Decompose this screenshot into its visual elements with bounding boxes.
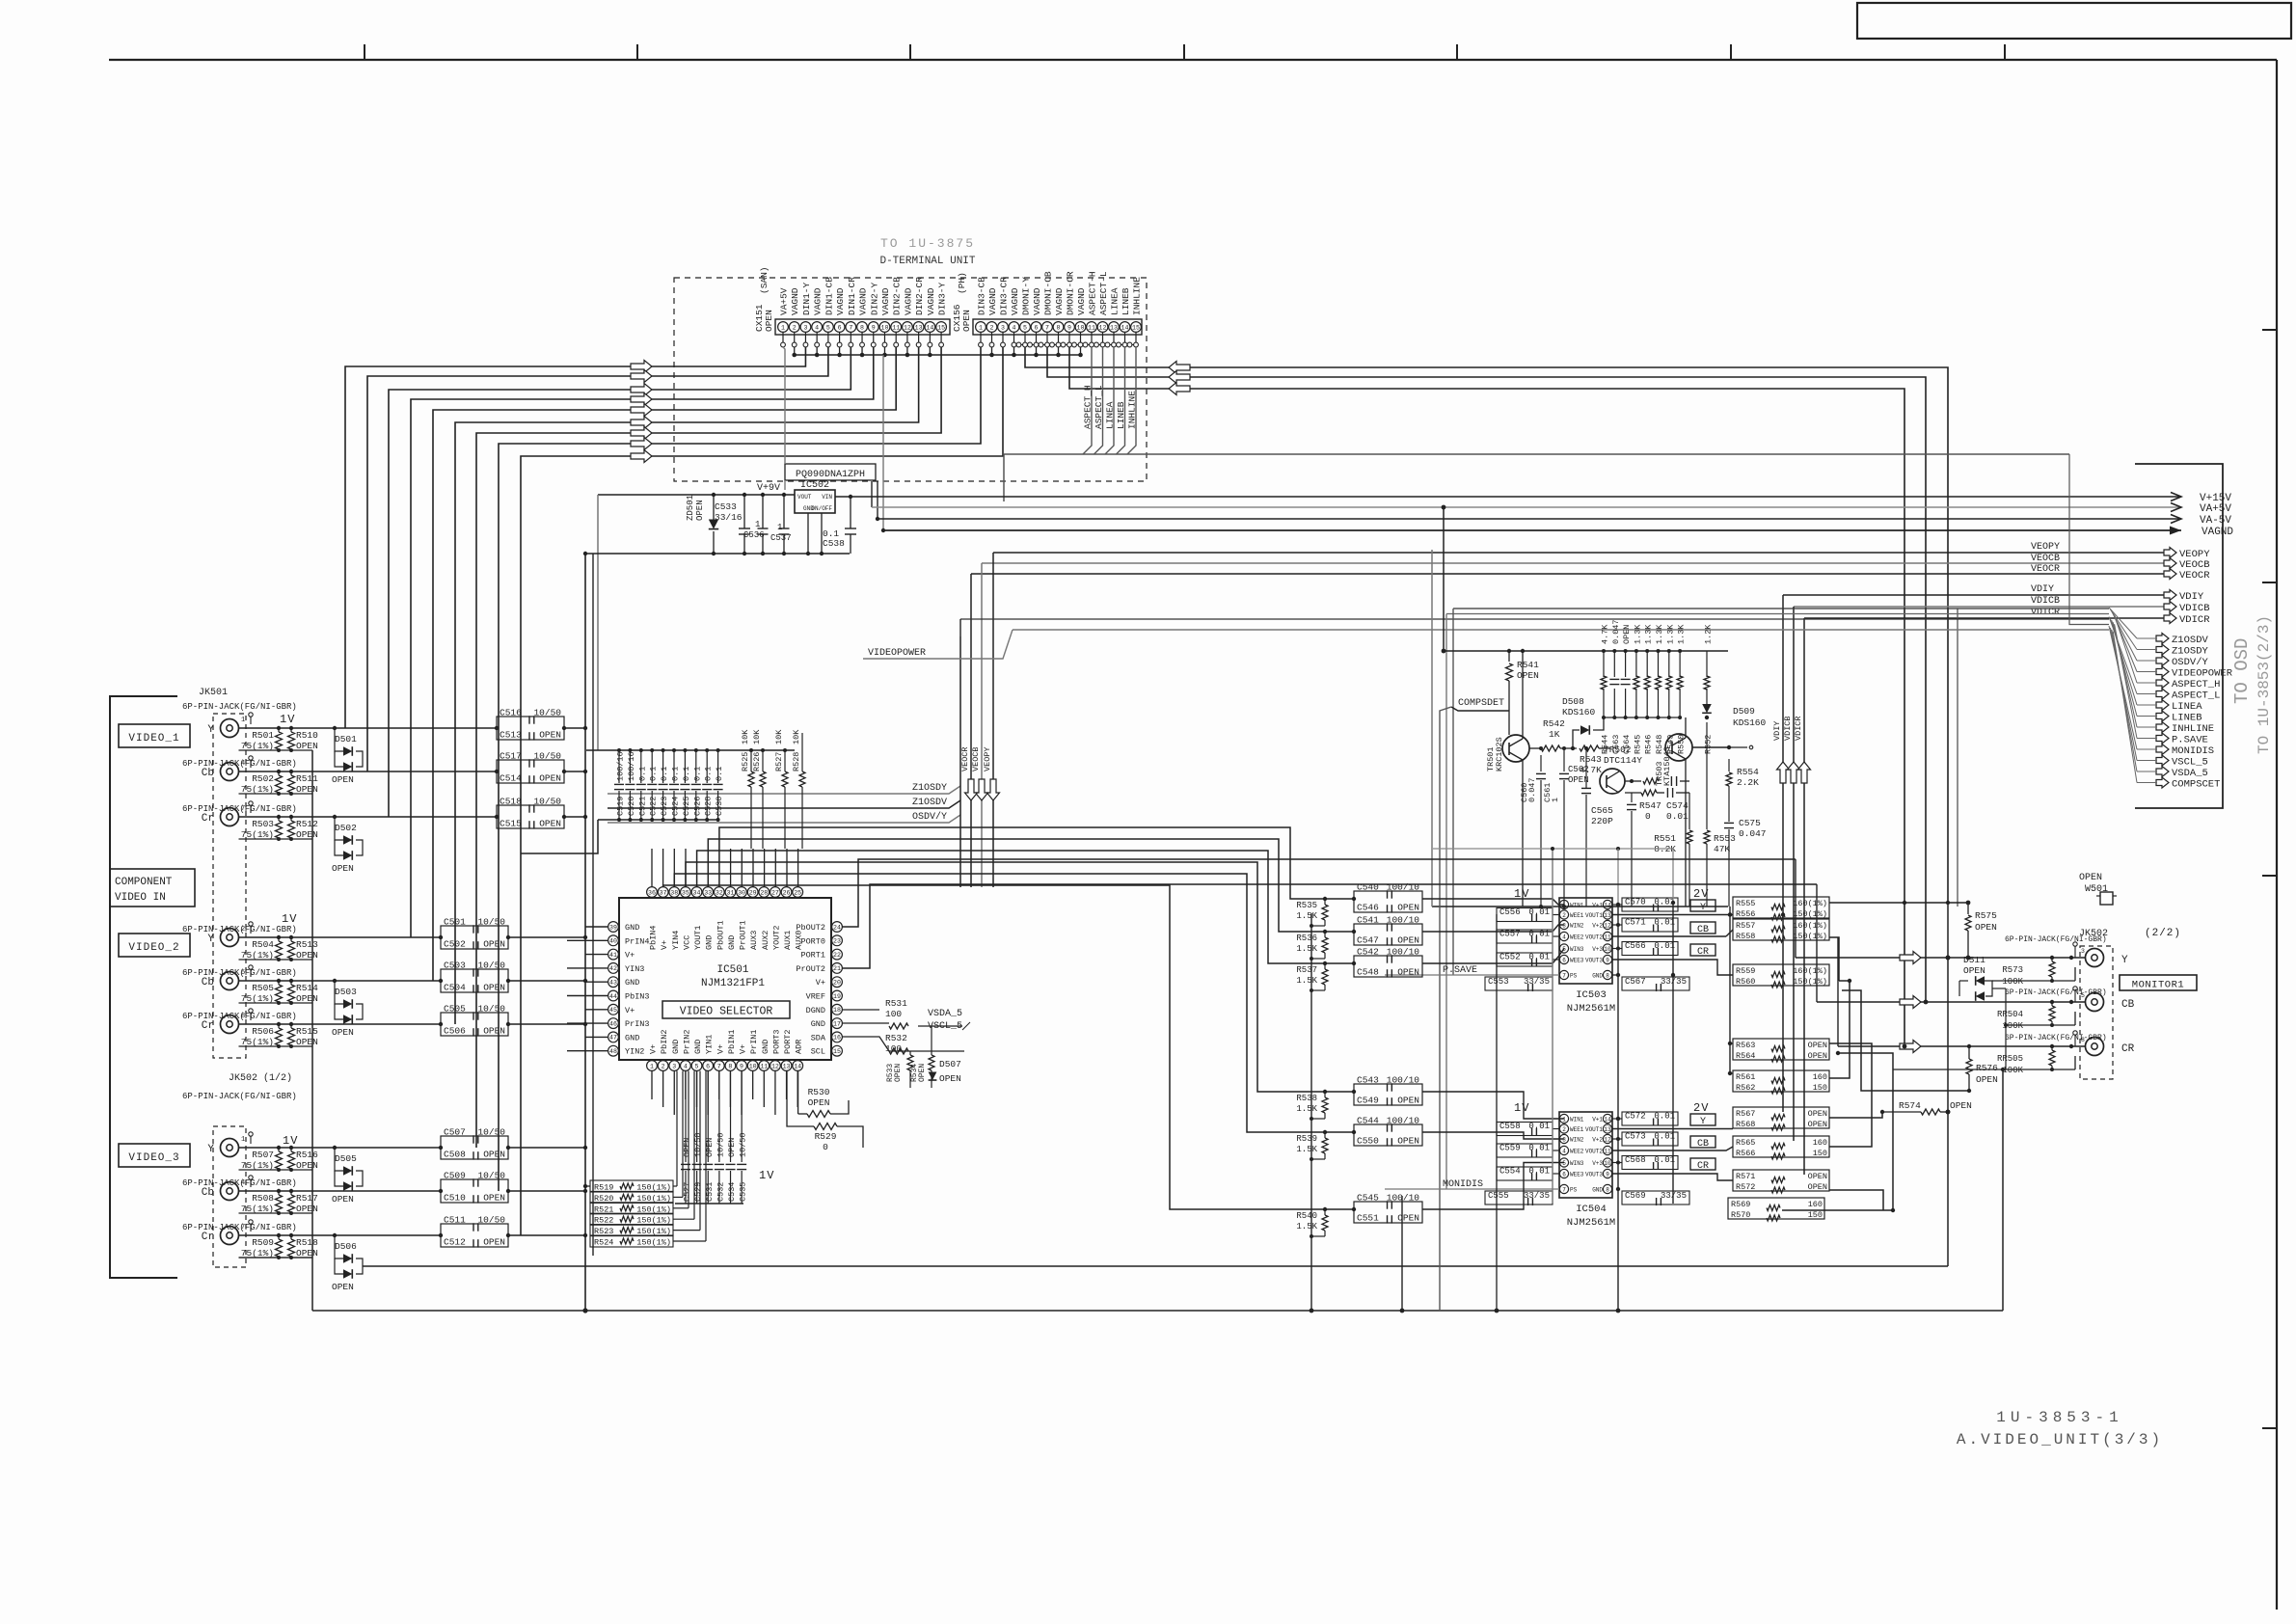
svg-text:C502: C502 <box>444 939 466 950</box>
IC504 pin 13 VOUT1 <box>1603 1124 1611 1133</box>
svg-text:NJM2561M: NJM2561M <box>1567 1003 1615 1015</box>
CX156 pin 11 stub <box>1091 333 1093 343</box>
wire DMONI left arrows <box>1169 362 1190 374</box>
wire DIN signal 2 <box>367 347 828 771</box>
svg-text:11: 11 <box>1604 1148 1611 1154</box>
svg-text:1.5K: 1.5K <box>1296 944 1317 954</box>
svg-text:3: 3 <box>1562 1136 1566 1143</box>
svg-text:R526: R526 <box>752 752 762 771</box>
svg-text:VEOCB: VEOCB <box>2031 554 2060 564</box>
svg-text:13: 13 <box>1110 324 1118 331</box>
svg-text:R545: R545 <box>1633 735 1642 754</box>
IC501 pin 46 <box>608 1018 619 1029</box>
CX151 pin 2 stub <box>794 333 796 343</box>
wire jack row 3 <box>239 936 442 938</box>
svg-text:150(1%): 150(1%) <box>1793 909 1827 919</box>
svg-text:10: 10 <box>1604 1160 1611 1167</box>
CX151 pin 3 <box>800 322 811 333</box>
svg-text:C510: C510 <box>444 1193 466 1204</box>
svg-text:100/16: 100/16 <box>627 751 636 781</box>
svg-text:OPEN: OPEN <box>1808 1182 1827 1192</box>
svg-text:KDS160: KDS160 <box>1562 707 1596 717</box>
capacitor C522 0.1 <box>651 750 653 783</box>
IC504 pin 14 V+1 <box>1603 1114 1611 1123</box>
svg-text:R518: R518 <box>296 1237 318 1248</box>
svg-text:4: 4 <box>1562 934 1566 940</box>
resistor R554 2.2K <box>1728 759 1730 771</box>
capacitor C525 0.1 <box>684 750 686 783</box>
wire CR riser <box>1837 937 1839 1046</box>
svg-text:150(1%): 150(1%) <box>1793 977 1827 987</box>
svg-text:(2/2): (2/2) <box>2145 928 2181 939</box>
svg-text:OPEN: OPEN <box>1517 670 1539 681</box>
svg-text:VAGND: VAGND <box>835 287 846 315</box>
svg-text:1.5K: 1.5K <box>1296 911 1317 921</box>
CX156 pin 8 <box>1053 322 1064 333</box>
svg-text:VAGND: VAGND <box>1076 287 1087 315</box>
wire output ASPECT_H <box>2156 678 2169 689</box>
svg-text:VDICR: VDICR <box>1794 716 1803 741</box>
IC501 pin 10 <box>747 1061 758 1071</box>
svg-text:23: 23 <box>833 938 841 945</box>
svg-text:C543: C543 <box>1357 1075 1379 1086</box>
resistor R514 OPEN <box>288 985 295 1002</box>
svg-text:VAGND: VAGND <box>1010 287 1020 315</box>
IC504 pin 11 VOUT2 <box>1603 1146 1611 1154</box>
CX156 pin 1 stub <box>980 333 982 343</box>
IC504 pin 1 WIN1 <box>1559 1114 1568 1123</box>
CX156 pin 7 stub <box>1046 333 1048 343</box>
wire riser x2030 <box>1957 609 1958 907</box>
svg-text:R561: R561 <box>1736 1072 1755 1082</box>
capacitor C529 10/50 <box>696 1071 698 1163</box>
svg-text:V+: V+ <box>816 978 825 988</box>
svg-text:D508: D508 <box>1562 696 1584 707</box>
wire VAGND feed from bus <box>882 355 884 530</box>
svg-text:0.1: 0.1 <box>660 767 669 781</box>
video input bracket <box>110 696 177 1278</box>
IC501 pin 27 <box>770 887 781 898</box>
svg-text:C516: C516 <box>500 708 522 718</box>
wire VOUT1 to R555 <box>1612 914 1733 916</box>
svg-text:VA+5V: VA+5V <box>2200 503 2231 515</box>
svg-text:100: 100 <box>885 1009 902 1019</box>
svg-text:38: 38 <box>670 889 678 896</box>
CX156 pin 10 <box>1075 322 1086 333</box>
wire VOUT2 to R557 <box>1612 935 1726 937</box>
svg-text:WEE2: WEE2 <box>1570 934 1584 941</box>
svg-text:10/50: 10/50 <box>477 1004 505 1015</box>
svg-text:Y: Y <box>1700 903 1706 913</box>
IC503 pin 4 WEE2 <box>1559 932 1568 940</box>
wire jack row 6 <box>239 1147 442 1149</box>
svg-text:C518: C518 <box>500 797 522 807</box>
svg-text:4: 4 <box>241 1179 245 1187</box>
IC501 pin 14 <box>793 1061 803 1071</box>
svg-text:10/50: 10/50 <box>477 1127 505 1138</box>
resistor R517 OPEN <box>288 1195 295 1212</box>
svg-text:LINEA: LINEA <box>1110 287 1121 315</box>
svg-text:30: 30 <box>738 889 745 896</box>
wire OSDV/Y <box>608 815 960 823</box>
wire VA-5V drop <box>871 481 873 507</box>
wire IC504 VOUT1 to R567 <box>1612 1128 1733 1130</box>
wire caps bottom rail <box>675 1203 743 1204</box>
svg-text:KRC102S: KRC102S <box>1495 737 1504 771</box>
IC501 pin 35 <box>680 887 690 898</box>
svg-text:10: 10 <box>749 1063 757 1069</box>
svg-text:8: 8 <box>1606 1186 1609 1193</box>
svg-text:C553: C553 <box>1488 977 1509 987</box>
CX156 pin 3 <box>998 322 1009 333</box>
wire LINEA <box>1105 347 1114 454</box>
svg-text:2: 2 <box>1562 912 1566 919</box>
svg-text:ZD501: ZD501 <box>686 495 695 521</box>
svg-text:OPEN: OPEN <box>332 1282 354 1292</box>
svg-text:VDICR: VDICR <box>2179 614 2210 626</box>
svg-text:OPEN: OPEN <box>483 1150 505 1160</box>
wire output ASPECT_L <box>2156 689 2169 699</box>
svg-text:IC501: IC501 <box>716 964 748 976</box>
svg-text:OPEN: OPEN <box>1975 922 1997 933</box>
CX151 pin 15 stub <box>940 333 942 343</box>
svg-text:R503: R503 <box>252 819 274 829</box>
svg-text:MONITOR1: MONITOR1 <box>2132 980 2184 991</box>
wire CB riser <box>1816 884 1818 1002</box>
svg-text:1V: 1V <box>759 1169 774 1182</box>
wire V+9V rail <box>598 494 795 496</box>
svg-text:R570: R570 <box>1731 1210 1750 1220</box>
jack Cb input 4 <box>221 972 239 990</box>
svg-text:OPEN: OPEN <box>1622 625 1632 644</box>
svg-text:OPEN: OPEN <box>483 1026 505 1037</box>
capacitor pair C511/C512 <box>441 1224 508 1247</box>
CX151 pin 1 stub <box>782 333 784 343</box>
svg-text:DGND: DGND <box>806 1006 825 1015</box>
border tick <box>2262 1427 2277 1429</box>
wire bus1 IC501 to amp input <box>719 827 1354 899</box>
svg-text:C542: C542 <box>1357 947 1379 958</box>
wire IC501 top stub <box>673 849 675 887</box>
wire mid horizontal PrOUT2 <box>842 884 1817 968</box>
border right rule <box>2276 60 2278 1610</box>
svg-text:R524: R524 <box>594 1238 613 1248</box>
svg-text:1K: 1K <box>1549 729 1560 740</box>
capacitor C553 33/35 <box>1485 977 1553 990</box>
svg-text:CR: CR <box>1697 947 1709 958</box>
svg-text:VSCL_5: VSCL_5 <box>2172 757 2208 769</box>
wire VEOCB <box>982 562 2164 564</box>
svg-text:C573: C573 <box>1625 1132 1646 1142</box>
svg-text:VAGND: VAGND <box>813 287 824 315</box>
svg-text:C521: C521 <box>637 797 647 816</box>
svg-text:33/16: 33/16 <box>715 512 743 523</box>
svg-text:VREF: VREF <box>806 992 825 1002</box>
capacitor C570 0.01 <box>1622 898 1678 911</box>
svg-text:VIDEO_2: VIDEO_2 <box>128 942 179 954</box>
resistor R515 OPEN <box>288 1028 295 1045</box>
svg-text:5: 5 <box>2081 992 2085 999</box>
svg-text:41: 41 <box>609 952 617 959</box>
svg-text:31: 31 <box>726 889 734 896</box>
capacitor C568 0.01 <box>1622 1156 1678 1170</box>
svg-text:160: 160 <box>1813 1072 1827 1082</box>
wire bus4 IC501 to amp input <box>686 862 1354 1092</box>
svg-text:2: 2 <box>241 926 245 934</box>
svg-text:Cr: Cr <box>202 1232 214 1243</box>
connector JK502(2/2) dashed box <box>2080 946 2113 1079</box>
svg-text:9: 9 <box>740 1063 743 1069</box>
CX156 pin 6 <box>1031 322 1041 333</box>
CX151 pin 6 stub <box>839 333 841 343</box>
wire VEOCR vertical <box>970 574 972 887</box>
bracket TO OSD <box>2135 464 2223 808</box>
svg-text:PrOUT1: PrOUT1 <box>739 920 748 950</box>
svg-text:COMPONENT: COMPONENT <box>115 877 173 888</box>
jack MONITOR1 Y <box>2086 949 2104 967</box>
resistor R503 75(1%) <box>276 821 283 838</box>
wire fan diagonal cone <box>2109 608 2137 638</box>
wire fan feed bundle horizontals <box>1453 608 2109 609</box>
svg-text:2.2K: 2.2K <box>1737 777 1759 788</box>
svg-text:C549: C549 <box>1357 1096 1379 1106</box>
svg-text:R571: R571 <box>1736 1172 1755 1181</box>
svg-text:6P-PIN-JACK(FG/NI-GBR): 6P-PIN-JACK(FG/NI-GBR) <box>2005 935 2107 944</box>
svg-text:R543: R543 <box>1580 754 1602 765</box>
svg-text:JK502 (1/2): JK502 (1/2) <box>229 1072 292 1084</box>
resistor R527 10K <box>784 750 786 771</box>
capacitor C552 0.01 <box>1497 953 1553 966</box>
svg-text:DMONI-CB: DMONI-CB <box>1043 271 1054 315</box>
svg-text:OPEN: OPEN <box>1950 1100 1972 1111</box>
svg-text:150: 150 <box>1813 1149 1827 1158</box>
svg-text:WIN2: WIN2 <box>1570 923 1584 930</box>
svg-text:R560: R560 <box>1736 977 1755 987</box>
capacitor C559 0.01 <box>1497 1144 1553 1157</box>
wire row to column <box>508 936 585 938</box>
svg-text:6: 6 <box>1562 1171 1566 1177</box>
svg-text:OPEN: OPEN <box>1397 1213 1419 1224</box>
svg-text:6P-PIN-JACK(FG/NI-GBR): 6P-PIN-JACK(FG/NI-GBR) <box>182 759 297 769</box>
IC503 pin 11 VOUT2 <box>1603 932 1611 940</box>
svg-text:V+2: V+2 <box>1592 1137 1603 1144</box>
svg-text:0.047: 0.047 <box>1611 619 1621 644</box>
resistor R511 OPEN <box>288 775 295 793</box>
svg-text:19: 19 <box>833 993 841 1000</box>
svg-text:C508: C508 <box>444 1150 466 1160</box>
svg-text:OSDV/Y: OSDV/Y <box>2172 657 2209 668</box>
wire rail 1678 <box>1617 905 1619 1311</box>
svg-text:1: 1 <box>777 523 782 532</box>
wire VAGND rail <box>883 529 2181 531</box>
svg-text:14: 14 <box>1121 324 1129 331</box>
IC501 pin 33 <box>703 887 714 898</box>
capacitor C531 OPEN <box>707 1071 709 1163</box>
svg-text:14: 14 <box>1604 1116 1611 1123</box>
svg-text:6P-PIN-JACK(FG/NI-GBR): 6P-PIN-JACK(FG/NI-GBR) <box>182 968 297 978</box>
wire GND row IC503 <box>1612 974 1618 976</box>
capacitor C524 0.1 <box>673 750 675 783</box>
resistor R505 75(1%) <box>276 985 283 1002</box>
jack MONITOR1 CR <box>2086 1038 2104 1056</box>
svg-text:8: 8 <box>241 1013 245 1020</box>
wire Y jack line <box>1796 957 2085 959</box>
svg-text:ASPECT_L: ASPECT_L <box>2172 690 2220 702</box>
svg-text:OPEN: OPEN <box>483 983 505 993</box>
svg-text:Cb: Cb <box>202 977 214 988</box>
svg-text:PrIN4: PrIN4 <box>625 936 650 946</box>
svg-text:21: 21 <box>833 965 841 972</box>
svg-text:YIN3: YIN3 <box>625 964 644 974</box>
IC503 pin 3 WIN2 <box>1559 920 1568 929</box>
IC501 pin 39 <box>608 922 619 933</box>
svg-text:6P-PIN-JACK(FG/NI-GBR): 6P-PIN-JACK(FG/NI-GBR) <box>182 1178 297 1188</box>
svg-text:D501: D501 <box>335 734 357 744</box>
CX156 pin 14 <box>1120 322 1130 333</box>
svg-text:PrIN2: PrIN2 <box>682 1029 691 1054</box>
svg-text:14: 14 <box>926 324 933 331</box>
svg-text:C505: C505 <box>444 1004 466 1015</box>
svg-text:R542: R542 <box>1543 718 1565 729</box>
svg-text:0.01: 0.01 <box>1654 1112 1675 1122</box>
resistor pair R571/R572 <box>1733 1170 1829 1191</box>
resistor pair R565/R566 <box>1733 1136 1829 1157</box>
wire IC501 top stub <box>662 849 664 887</box>
svg-text:R569: R569 <box>1731 1200 1750 1209</box>
svg-text:PrIN3: PrIN3 <box>625 1019 650 1029</box>
svg-text:R537: R537 <box>1296 965 1317 975</box>
capacitor C519 100/16 <box>618 750 620 783</box>
IC503 pin 6 WEE3 <box>1559 955 1568 963</box>
svg-text:5: 5 <box>1023 324 1027 331</box>
svg-text:YIN1: YIN1 <box>705 1035 715 1054</box>
svg-text:Cb: Cb <box>202 1187 214 1199</box>
svg-text:PbOUT2: PbOUT2 <box>796 923 825 933</box>
svg-text:R505: R505 <box>252 983 274 993</box>
wire node D <box>1829 1043 1872 1147</box>
svg-text:9: 9 <box>1606 1171 1609 1177</box>
svg-text:VIDEOPOWER: VIDEOPOWER <box>868 648 926 659</box>
wire DIN signal 8 <box>499 347 981 1191</box>
svg-text:WIN3: WIN3 <box>1570 1160 1584 1167</box>
svg-text:R506: R506 <box>252 1026 274 1037</box>
svg-text:C545: C545 <box>1357 1193 1379 1204</box>
IC504 pin 8 GND <box>1603 1184 1611 1193</box>
wire IC501 top stub <box>797 849 799 887</box>
IC501 pin 5 <box>691 1061 702 1071</box>
svg-text:Cb: Cb <box>202 768 214 779</box>
CX156 pin 11 <box>1087 322 1097 333</box>
CX151 pin 14 <box>925 322 935 333</box>
svg-text:R517: R517 <box>296 1193 318 1204</box>
svg-text:R564: R564 <box>1736 1051 1755 1061</box>
IC503 pin 14 V+1 <box>1603 900 1611 908</box>
svg-text:10K: 10K <box>774 729 784 744</box>
svg-text:R529: R529 <box>815 1131 837 1142</box>
capacitor C528 0.1 <box>706 750 708 783</box>
svg-text:R546: R546 <box>1644 735 1654 754</box>
IC503 pin 5 WIN3 <box>1559 944 1568 953</box>
svg-text:C567: C567 <box>1625 977 1646 987</box>
svg-text:R557: R557 <box>1736 921 1755 931</box>
IC501 pin 29 <box>747 887 758 898</box>
jack return wire <box>239 959 313 961</box>
capacitor C527 OPEN <box>685 1071 687 1163</box>
svg-text:OPEN: OPEN <box>918 1064 927 1082</box>
svg-text:CB: CB <box>1697 1139 1709 1150</box>
connector CX156 <box>973 319 1142 335</box>
label CB box IC503 <box>1690 922 1715 934</box>
IC504 pin 9 VOUT3 <box>1603 1169 1611 1177</box>
wire D509 to rail <box>1706 716 1708 717</box>
svg-text:JK501: JK501 <box>199 688 228 698</box>
svg-text:GND: GND <box>625 923 639 933</box>
svg-text:VAGND: VAGND <box>1032 287 1042 315</box>
svg-text:VEOCB: VEOCB <box>971 746 981 771</box>
wire row to column <box>508 1190 585 1192</box>
svg-text:C514: C514 <box>500 773 522 784</box>
wire TR502 links <box>1625 780 1632 782</box>
wire node C <box>1842 990 1969 1091</box>
svg-text:IC504: IC504 <box>1576 1204 1607 1215</box>
CX151 pin 11 stub <box>895 333 897 343</box>
jack return wire <box>239 1002 313 1004</box>
svg-text:YIN2: YIN2 <box>625 1047 644 1057</box>
wire Y riser <box>1795 859 1796 958</box>
svg-text:R559: R559 <box>1736 966 1755 976</box>
CX151 pin 13 stub <box>918 333 920 343</box>
svg-text:5: 5 <box>695 1063 699 1069</box>
CX151 pin 11 <box>891 322 902 333</box>
svg-text:7: 7 <box>1045 324 1049 331</box>
resistor R516 OPEN <box>288 1151 295 1169</box>
IC501 pin 15 <box>832 1045 843 1056</box>
svg-text:OPEN: OPEN <box>483 1193 505 1204</box>
svg-text:GND: GND <box>705 935 715 950</box>
svg-text:5: 5 <box>1562 1160 1566 1167</box>
svg-text:8: 8 <box>2081 1037 2085 1043</box>
svg-text:OPEN: OPEN <box>332 1194 354 1204</box>
resistor R526 10K <box>762 750 764 771</box>
IC501 pin 12 <box>770 1061 781 1071</box>
jumper W501 <box>2100 892 2113 905</box>
svg-text:6: 6 <box>838 324 842 331</box>
svg-text:42: 42 <box>609 965 617 972</box>
svg-text:COMPSCET: COMPSCET <box>2172 779 2220 791</box>
CX151 pin 14 stub <box>929 333 931 343</box>
svg-text:C534: C534 <box>727 1182 737 1202</box>
svg-text:R504: R504 <box>252 939 274 950</box>
capacitor C567 33/35 <box>1622 977 1689 990</box>
svg-text:2V: 2V <box>1693 887 1709 901</box>
svg-text:DIN3-CR: DIN3-CR <box>999 277 1010 315</box>
svg-text:VAGND: VAGND <box>903 287 913 315</box>
wire bus3 IC501 to amp input <box>697 851 1354 963</box>
svg-text:C574: C574 <box>1666 800 1688 811</box>
svg-text:1V: 1V <box>1514 1101 1529 1115</box>
IC502 regulator PQ090DNA1ZPH box label <box>785 464 876 480</box>
IC504 pin 2 WEE1 <box>1559 1124 1568 1133</box>
svg-text:DIN1-CB: DIN1-CB <box>824 277 834 315</box>
wire D506 output to bottom rail <box>363 1265 1948 1267</box>
transistor TR502 DTC114Y <box>1600 769 1625 794</box>
svg-text:C544: C544 <box>1357 1116 1379 1126</box>
svg-text:C532: C532 <box>716 1182 725 1202</box>
CX156 pin 1 <box>976 322 986 333</box>
CX151 pin 8 <box>857 322 868 333</box>
svg-text:RR504: RR504 <box>1997 1010 2023 1019</box>
svg-text:C513: C513 <box>500 730 522 741</box>
